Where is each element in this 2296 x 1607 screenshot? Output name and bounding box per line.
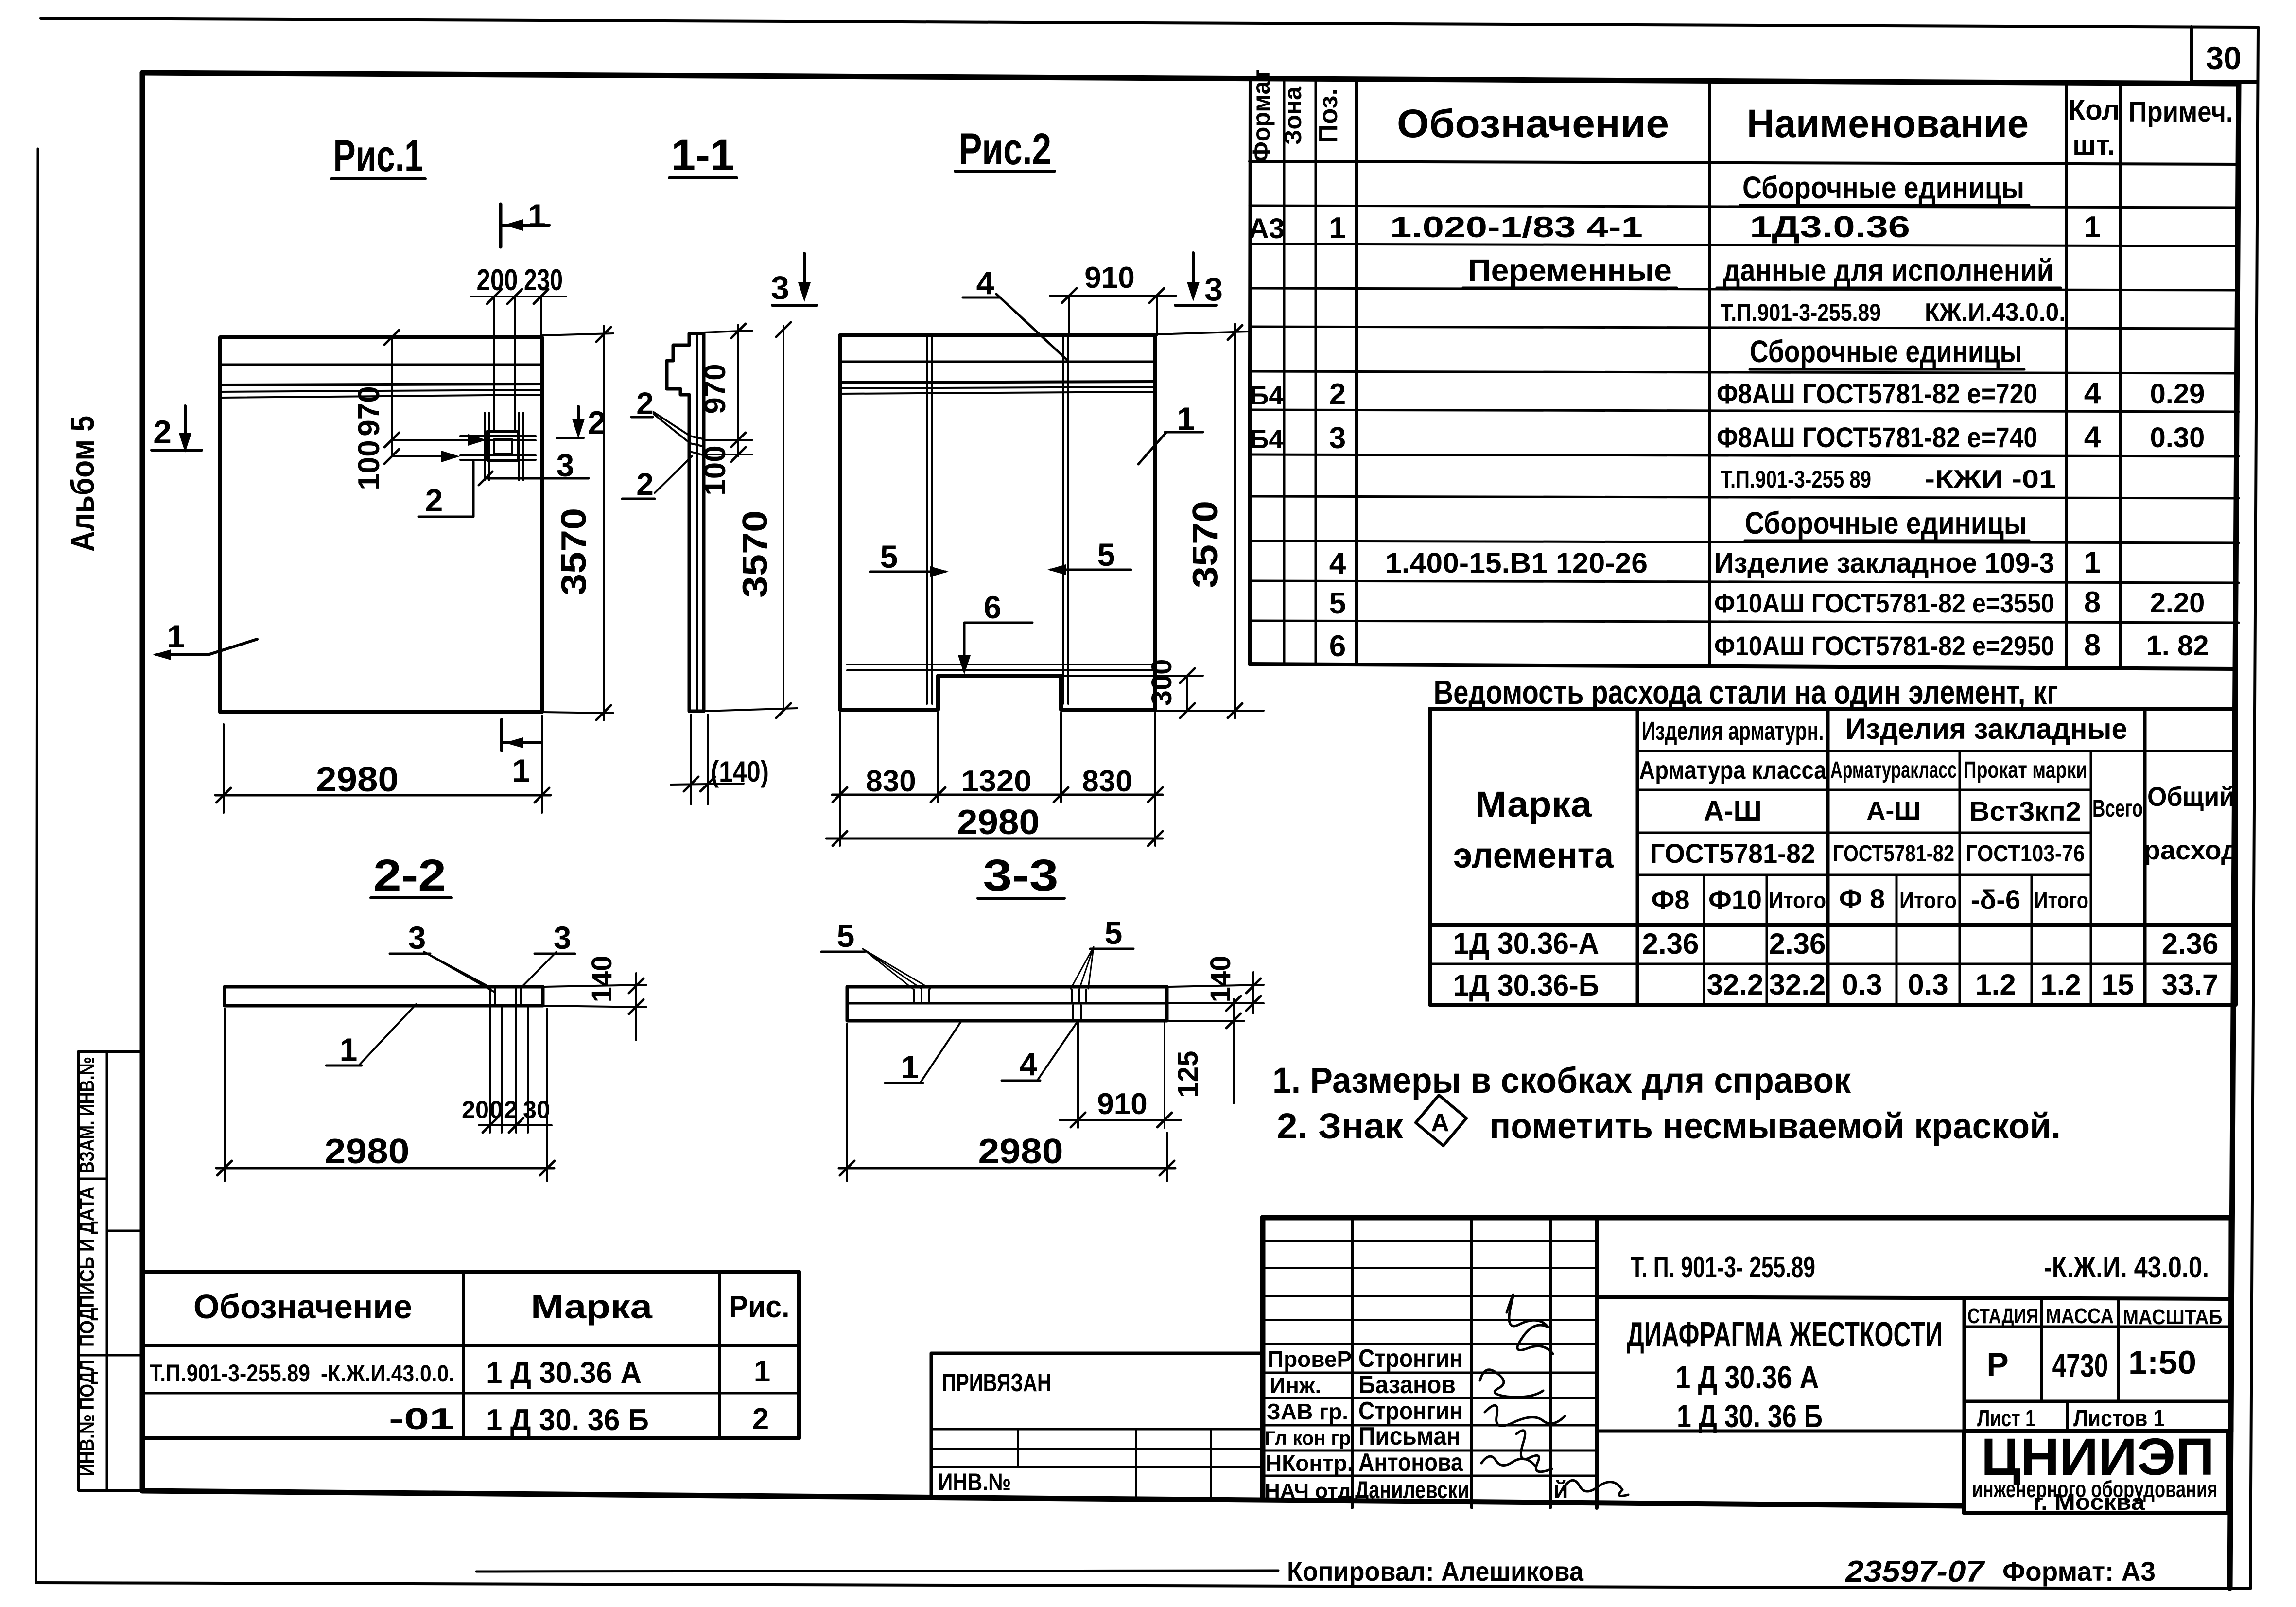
svg-text:6: 6 xyxy=(1329,629,1346,663)
svg-text:Рис.: Рис. xyxy=(729,1289,790,1324)
fig1 plate anchor bars vertical left pair xyxy=(484,413,486,480)
page number box xyxy=(2190,27,2193,82)
svg-text:НКонтр.: НКонтр. xyxy=(1266,1450,1354,1476)
fig1 embedded plate outer xyxy=(487,431,518,460)
svg-text:30: 30 xyxy=(2206,40,2241,76)
title стадия/масса/масштаб verticals xyxy=(1963,1299,1966,1431)
svg-text:4: 4 xyxy=(2084,377,2101,410)
svg-text:3: 3 xyxy=(408,920,426,956)
svg-text:2: 2 xyxy=(1329,378,1346,411)
svg-text:2: 2 xyxy=(636,386,654,421)
svg-text:Сборочные единицы: Сборочные единицы xyxy=(1745,506,2027,541)
svg-text:830: 830 xyxy=(866,765,916,798)
svg-text:Данилевски: Данилевски xyxy=(1355,1476,1469,1503)
svg-text:23597-07: 23597-07 xyxy=(1845,1555,1985,1589)
fig1 dim 100 rotated label xyxy=(384,449,399,464)
fig2 dim 300 xyxy=(1061,675,1203,677)
main frame top xyxy=(142,73,2239,84)
svg-text:20: 20 xyxy=(462,1096,489,1123)
svg-text:Сборочные единицы: Сборочные единицы xyxy=(1742,170,2024,205)
left strip divider 2 xyxy=(79,1354,142,1357)
svg-text:0.3: 0.3 xyxy=(1908,968,1948,1001)
svg-text:Обозначение: Обозначение xyxy=(1397,102,1669,146)
fig1 extension line 200 right xyxy=(514,297,516,431)
svg-text:33.7: 33.7 xyxy=(2162,968,2219,1001)
note 2 diamond A mark xyxy=(1416,1095,1466,1146)
svg-text:2.36: 2.36 xyxy=(1642,927,1699,960)
svg-text:Итого: Итого xyxy=(1899,888,1957,913)
section 2-2 dim 2980 xyxy=(224,1009,226,1181)
svg-text:А: А xyxy=(1431,1109,1449,1137)
svg-text:2.36: 2.36 xyxy=(2162,927,2219,960)
svg-text:1: 1 xyxy=(528,197,546,233)
spec table bottom edge xyxy=(1250,664,2234,669)
svg-text:1Д 30.36-Б: 1Д 30.36-Б xyxy=(1453,969,1599,1002)
svg-text:140: 140 xyxy=(586,956,618,1003)
svg-text:Т.П.901-3-255 89: Т.П.901-3-255 89 xyxy=(1721,466,1871,493)
svg-text:970: 970 xyxy=(352,386,386,436)
svg-text:Б4: Б4 xyxy=(1250,381,1284,410)
svg-text:1.400-15.В1 120-26: 1.400-15.В1 120-26 xyxy=(1385,547,1648,579)
steel table col Всего left xyxy=(2090,751,2092,1005)
svg-text:-КЖИ -01: -КЖИ -01 xyxy=(1925,465,2056,493)
spec table column Поз xyxy=(1355,79,1358,664)
fig2 band line 3 xyxy=(840,387,1155,388)
svg-text:1. Размеры в скобках для справ: 1. Размеры в скобках для справок xyxy=(1272,1060,1851,1100)
svg-text:2.36: 2.36 xyxy=(1769,927,1826,960)
svg-text:3570: 3570 xyxy=(736,510,775,598)
svg-text:Изделия закладные: Изделия закладные xyxy=(1845,713,2127,745)
fig1 section mark 1 top xyxy=(499,204,503,247)
spec table row line 5 xyxy=(1250,327,2239,329)
svg-text:Стронгин: Стронгин xyxy=(1358,1397,1463,1425)
svg-text:910: 910 xyxy=(1097,1087,1147,1121)
section 1-1 dim 3570 xyxy=(783,326,784,711)
svg-text:Общий: Общий xyxy=(2147,781,2235,812)
svg-text:Ф10АШ ГОСТ5781-82 е=2950: Ф10АШ ГОСТ5781-82 е=2950 xyxy=(1714,630,2054,661)
svg-text:140: 140 xyxy=(1205,956,1236,1003)
steel table row 1903 thick xyxy=(1430,923,2236,927)
svg-text:1.2: 1.2 xyxy=(2040,968,2081,1001)
steel table col ф8/ф10 xyxy=(1703,875,1705,1005)
svg-text:2. Знак: 2. Знак xyxy=(1277,1106,1404,1146)
svg-text:1Д 30.36-А: 1Д 30.36-А xyxy=(1453,927,1599,961)
svg-text:А-Ш: А-Ш xyxy=(1866,796,1920,825)
fig1 dim line top xyxy=(470,296,566,297)
svg-text:Р: Р xyxy=(1986,1346,2008,1383)
fig2 rebar horizontal pair bottom xyxy=(847,664,1153,665)
svg-text:ПровеР: ПровеР xyxy=(1268,1346,1352,1372)
spec table row line 12 xyxy=(1250,621,2239,623)
svg-text:расход: расход xyxy=(2144,835,2239,865)
svg-text:-δ-6: -δ-6 xyxy=(1971,884,2020,915)
section 3-3 dim 2980 xyxy=(846,1024,848,1181)
fig1 extension line 230 right xyxy=(540,297,542,337)
svg-text:1: 1 xyxy=(167,618,185,654)
svg-text:100: 100 xyxy=(698,445,732,495)
svg-text:1: 1 xyxy=(2084,210,2101,244)
fig1 panel outline xyxy=(220,337,542,712)
fig1 ext line 100 bottom xyxy=(392,455,457,457)
fig2 panel outline with door notch xyxy=(840,335,1155,710)
section 2-2 small dims 200 230 xyxy=(489,1006,491,1133)
fig1 dim 3570 right xyxy=(543,333,613,335)
svg-text:Обозначение: Обозначение xyxy=(193,1288,412,1326)
title signatures squiggles xyxy=(1507,1295,1553,1354)
svg-text:Копировал: Алешикова: Копировал: Алешикова xyxy=(1287,1556,1584,1587)
spec table row line 11 xyxy=(1250,581,2239,583)
main frame bottom xyxy=(142,1491,1964,1506)
svg-text:6: 6 xyxy=(984,589,1002,625)
spec table row line 7 xyxy=(1250,410,2239,412)
section 1-1 dim 970 xyxy=(704,331,752,332)
main frame left xyxy=(140,73,145,1489)
svg-text:2: 2 xyxy=(425,482,443,518)
svg-text:Инж.: Инж. xyxy=(1270,1373,1321,1398)
svg-text:4: 4 xyxy=(976,265,994,301)
fig2 rebar vertical pair right xyxy=(1062,337,1064,704)
sheet outer border left xyxy=(36,149,38,1583)
обозначение table header bottom xyxy=(143,1344,799,1347)
svg-text:Рис.1: Рис.1 xyxy=(333,131,423,181)
section 2-2 slab xyxy=(225,987,543,1006)
svg-text:0: 0 xyxy=(489,1096,503,1123)
section 1-1 inner line xyxy=(696,335,698,710)
steel table row 1545 xyxy=(1637,750,2236,752)
svg-text:Т. П. 901-3- 255.89: Т. П. 901-3- 255.89 xyxy=(1631,1251,1815,1284)
svg-text:Переменные: Переменные xyxy=(1468,253,1672,288)
svg-text:ГОСТ5781-82: ГОСТ5781-82 xyxy=(1650,838,1815,869)
steel table col ф8/итого закл xyxy=(1896,875,1898,1005)
fig1 section mark 1 bottom xyxy=(500,719,503,751)
section 3-3 dim 125 xyxy=(1169,1020,1244,1022)
section 3-3 dim 910 xyxy=(1077,1023,1079,1128)
svg-text:ВЗАМ. ИНВ.№: ВЗАМ. ИНВ.№ xyxy=(75,1057,98,1173)
svg-text:Всего: Всего xyxy=(2092,795,2143,822)
fig1 band line 2 xyxy=(220,384,542,385)
fig2 band line 2 xyxy=(840,382,1155,383)
svg-text:ГОСТ103-76: ГОСТ103-76 xyxy=(1966,841,2085,867)
svg-text:5: 5 xyxy=(880,539,898,575)
svg-text:1: 1 xyxy=(1329,211,1346,245)
svg-text:1: 1 xyxy=(754,1355,770,1388)
svg-text:СТАДИЯ: СТАДИЯ xyxy=(1967,1304,2038,1328)
svg-text:1 Д 30.36 А: 1 Д 30.36 А xyxy=(486,1356,642,1390)
section 3-3 slab mid line xyxy=(847,1002,1167,1005)
svg-text:Кол: Кол xyxy=(2068,94,2120,126)
fig1 embedded plate inner xyxy=(494,439,512,454)
section 2-2 rebar marks xyxy=(490,989,521,1004)
spec table row line 2 xyxy=(1250,206,2239,208)
spec table row line 9 xyxy=(1250,496,2239,498)
steel table row 1983 xyxy=(1430,963,2236,965)
svg-text:Ф8АШ ГОСТ5781-82 е=720: Ф8АШ ГОСТ5781-82 е=720 xyxy=(1717,378,2037,410)
svg-text:ЗАВ гр.: ЗАВ гр. xyxy=(1267,1399,1348,1424)
left strip divider 1 narrow xyxy=(79,1178,107,1180)
svg-text:Т.П.901-3-255.89: Т.П.901-3-255.89 xyxy=(1721,299,1881,326)
steel table col Общий расход left xyxy=(2143,709,2147,1005)
fig2 section mark 3 right xyxy=(1192,253,1195,297)
svg-text:0.29: 0.29 xyxy=(2150,378,2205,410)
svg-text:-К.Ж.И.43.0.0.: -К.Ж.И.43.0.0. xyxy=(321,1361,454,1387)
svg-text:Письман: Письман xyxy=(1358,1422,1461,1450)
fig1 plate anchor bars horizontal bottom pair xyxy=(460,454,536,456)
spec table column Примеч xyxy=(2119,82,2122,667)
section 1-1 dim (140) xyxy=(690,715,692,804)
svg-text:Антонова: Антонова xyxy=(1358,1449,1463,1477)
spec table left edge xyxy=(1250,78,1251,664)
svg-text:А3: А3 xyxy=(1249,213,1285,245)
section 3-3 slab xyxy=(847,987,1167,1021)
svg-text:1: 1 xyxy=(901,1049,919,1085)
left strip bottom xyxy=(79,1490,142,1491)
svg-text:1320: 1320 xyxy=(961,765,1032,798)
spec table row line 4 xyxy=(1250,288,2239,290)
svg-text:элемента: элемента xyxy=(1453,835,1614,875)
svg-text:1: 1 xyxy=(340,1031,358,1067)
svg-text:2: 2 xyxy=(636,467,654,502)
section 3-3 rebar marks bottom right xyxy=(1073,1005,1081,1019)
steel table col ф10/итого xyxy=(1766,875,1768,1005)
svg-text:3: 3 xyxy=(1204,271,1223,308)
title name cell bottom xyxy=(1597,1430,2231,1433)
svg-text:5: 5 xyxy=(837,918,855,954)
svg-text:пометить несмываемой краской.: пометить несмываемой краской. xyxy=(1490,1106,2061,1146)
svg-text:Итого: Итого xyxy=(1769,888,1826,913)
привязан box top xyxy=(931,1352,1263,1355)
fig2 dim 910 top xyxy=(1068,296,1070,335)
steel table col Марка right xyxy=(1636,709,1639,1005)
svg-text:Стронгин: Стронгин xyxy=(1358,1345,1463,1373)
svg-text:-К.Ж.И. 43.0.0.: -К.Ж.И. 43.0.0. xyxy=(2044,1251,2209,1284)
spec table row line 3 xyxy=(1250,244,2239,246)
fig2 bottom ext lines xyxy=(839,713,841,846)
svg-text:4730: 4730 xyxy=(2052,1347,2108,1384)
fig1 section mark 2 right xyxy=(577,406,580,434)
обозначение table col2 xyxy=(718,1272,721,1438)
svg-text:Формат: Формат xyxy=(1248,69,1275,162)
svg-text:Б4: Б4 xyxy=(1250,425,1284,454)
svg-text:Ф8: Ф8 xyxy=(1652,884,1690,915)
title стадия row bottom xyxy=(1964,1400,2231,1403)
spec table row line 8 xyxy=(1250,454,2239,456)
svg-text:100: 100 xyxy=(352,440,386,490)
fig2 band line 4 xyxy=(840,392,1155,394)
svg-text:ПРИВЯЗАН: ПРИВЯЗАН xyxy=(942,1369,1051,1397)
svg-text:8: 8 xyxy=(2084,586,2101,619)
sheet outer border bottom xyxy=(36,1583,2250,1589)
title vertical 2782 xyxy=(1351,1218,1354,1508)
svg-text:Гл кон гр: Гл кон гр xyxy=(1265,1428,1351,1449)
title ЦНИИЭП xyxy=(1964,1431,2228,1513)
svg-text:125: 125 xyxy=(1172,1051,1204,1098)
title row lines left section xyxy=(1263,1240,1597,1242)
steel table col закладные left xyxy=(1826,709,1830,1005)
left strip inner vertical xyxy=(106,1051,108,1490)
svg-text:2: 2 xyxy=(752,1402,769,1436)
fig1 dim 2980 xyxy=(223,724,225,813)
svg-text:1:50: 1:50 xyxy=(2128,1344,2196,1381)
svg-text:3-3: 3-3 xyxy=(983,851,1059,900)
svg-text:1 Д 30.36 А: 1 Д 30.36 А xyxy=(1676,1359,1819,1395)
svg-text:Арматуракласс: Арматуракласс xyxy=(1830,757,1957,783)
svg-text:2980: 2980 xyxy=(978,1132,1063,1171)
svg-text:Марка: Марка xyxy=(531,1288,653,1326)
section 3-3 rebar marks right xyxy=(1072,990,1086,1001)
svg-text:30: 30 xyxy=(523,1096,550,1123)
svg-text:Арматура класса: Арматура класса xyxy=(1639,756,1827,785)
svg-text:3570: 3570 xyxy=(555,508,593,595)
left strip outer left xyxy=(77,1051,80,1490)
svg-text:ИНВ.№ ПОДЛ: ИНВ.№ ПОДЛ xyxy=(75,1360,98,1476)
fig1 plate anchor bars horizontal top pair xyxy=(460,435,536,437)
svg-text:1Д3.0.36: 1Д3.0.36 xyxy=(1750,210,1910,244)
steel table row 1625 xyxy=(1637,789,2091,791)
svg-text:Наименование: Наименование xyxy=(1747,102,2029,146)
svg-text:й: й xyxy=(1553,1476,1568,1503)
svg-text:ПОДПИСЬ И ДАТА: ПОДПИСЬ И ДАТА xyxy=(75,1187,98,1347)
svg-text:А-Ш: А-Ш xyxy=(1704,795,1761,827)
fig1 band line 3 xyxy=(220,390,542,392)
svg-text:1. 82: 1. 82 xyxy=(2146,630,2209,662)
svg-text:Ф 8: Ф 8 xyxy=(1839,883,1885,914)
svg-text:Изделие закладное 109-3: Изделие закладное 109-3 xyxy=(1714,547,2054,579)
fig1 plate anchor bars vertical right pair xyxy=(518,413,520,480)
section 3-3 rebar marks left xyxy=(914,990,929,1001)
spec table row line 10 xyxy=(1250,541,2239,543)
svg-text:2.20: 2.20 xyxy=(2150,587,2205,619)
steel table outer xyxy=(1430,709,2236,1005)
svg-text:КЖ.И.43.0.0.: КЖ.И.43.0.0. xyxy=(1925,298,2066,327)
привязан verticals xyxy=(1017,1429,1019,1467)
title стадия header underline xyxy=(1964,1326,2231,1328)
svg-text:-01: -01 xyxy=(389,1402,454,1436)
fig1 extension line 200 left xyxy=(493,297,495,431)
fig2 dim 830 1320 830 xyxy=(832,794,1163,796)
svg-text:8: 8 xyxy=(2084,629,2101,662)
svg-text:3: 3 xyxy=(554,920,572,956)
svg-text:ГОСТ5781-82: ГОСТ5781-82 xyxy=(1833,841,1954,867)
svg-text:5: 5 xyxy=(1105,915,1123,951)
обозначение table outer xyxy=(143,1272,799,1438)
title band Т.п. line xyxy=(1597,1297,2231,1299)
svg-text:3: 3 xyxy=(1329,421,1346,455)
fig2 rebar vertical pair left xyxy=(926,337,928,704)
steel table col -δ-6/итого xyxy=(2031,875,2033,1005)
section 1-1 strip outline with corbel xyxy=(667,333,704,711)
title block outer xyxy=(1263,1215,2231,1221)
svg-text:НАЧ отд: НАЧ отд xyxy=(1265,1479,1351,1503)
svg-text:ДИАФРАГМА ЖЕСТКОСТИ: ДИАФРАГМА ЖЕСТКОСТИ xyxy=(1627,1315,1943,1354)
steel table col арматуракласс/прокат xyxy=(1959,751,1961,1005)
sheet outer border top xyxy=(41,18,2258,27)
привязан rows xyxy=(931,1428,1263,1431)
steel table row 1713 xyxy=(1637,832,2091,834)
svg-text:1.020-1/83 4-1: 1.020-1/83 4-1 xyxy=(1390,211,1643,244)
svg-text:1 Д 30. 36 Б: 1 Д 30. 36 Б xyxy=(486,1403,649,1437)
привязан box left xyxy=(930,1353,933,1497)
section 1-1 dim 100 xyxy=(704,454,752,455)
svg-text:МАСШТАБ: МАСШТАБ xyxy=(2123,1305,2223,1329)
svg-text:830: 830 xyxy=(1082,765,1132,798)
svg-text:ИНВ.№: ИНВ.№ xyxy=(938,1468,1011,1496)
spec table column Зона xyxy=(1315,78,1317,664)
svg-text:Формат: А3: Формат: А3 xyxy=(2002,1556,2156,1587)
svg-text:1 Д 30. 36 Б: 1 Д 30. 36 Б xyxy=(1677,1398,1823,1434)
svg-text:Примеч.: Примеч. xyxy=(2129,96,2233,128)
annotation rule above bottom border xyxy=(476,1571,1278,1572)
svg-text:Итого: Итого xyxy=(2034,888,2088,913)
spec table column Формат xyxy=(1283,78,1286,664)
fig2 dim 2980 xyxy=(826,838,1163,840)
svg-text:4: 4 xyxy=(2084,420,2101,454)
title лист divider xyxy=(2066,1401,2069,1431)
title vertical 3285 thick xyxy=(1595,1218,1599,1508)
svg-text:Сборочные единицы: Сборочные единицы xyxy=(1750,334,2022,369)
svg-text:970: 970 xyxy=(698,364,732,414)
svg-text:1.2: 1.2 xyxy=(1975,968,2016,1001)
svg-text:3: 3 xyxy=(771,269,789,306)
svg-text:1: 1 xyxy=(512,752,530,788)
svg-text:Альбом 5: Альбом 5 xyxy=(64,416,101,552)
svg-text:32.2: 32.2 xyxy=(1769,968,1826,1001)
svg-text:данные для исполнений: данные для исполнений xyxy=(1723,253,2053,288)
main frame right xyxy=(2230,84,2239,1589)
svg-text:Поз.: Поз. xyxy=(1314,88,1343,143)
fig2 dim 3570 xyxy=(1155,332,1249,334)
svg-text:Рис.2: Рис.2 xyxy=(959,124,1051,174)
title vertical 3028 xyxy=(1470,1218,1473,1508)
svg-text:Ф10АШ ГОСТ5781-82 е=3550: Ф10АШ ГОСТ5781-82 е=3550 xyxy=(1714,588,2054,618)
section 1-1 rebar hatch xyxy=(690,436,703,455)
spec table column Наименование left xyxy=(1708,80,1711,665)
svg-text:2: 2 xyxy=(153,414,172,451)
svg-text:5: 5 xyxy=(1329,587,1346,620)
svg-text:3570: 3570 xyxy=(1186,501,1225,588)
svg-text:300: 300 xyxy=(1146,659,1178,706)
svg-text:(140): (140) xyxy=(711,755,769,788)
svg-text:15: 15 xyxy=(2102,968,2134,1001)
svg-text:Изделия арматурн.: Изделия арматурн. xyxy=(1642,716,1824,746)
svg-text:2980: 2980 xyxy=(316,760,399,799)
fig1 band line 4 xyxy=(220,395,542,398)
svg-text:шт.: шт. xyxy=(2072,129,2115,161)
svg-text:0.30: 0.30 xyxy=(2150,422,2205,454)
steel table row 1800 xyxy=(1637,874,2091,876)
svg-text:1: 1 xyxy=(2084,546,2101,579)
svg-text:2-2: 2-2 xyxy=(373,851,446,900)
sheet outer border right xyxy=(2250,27,2258,1589)
svg-text:230: 230 xyxy=(524,263,563,297)
svg-text:Т.П.901-3-255.89: Т.П.901-3-255.89 xyxy=(150,1360,310,1387)
svg-text:Ф10: Ф10 xyxy=(1708,884,1762,915)
svg-text:Зона: Зона xyxy=(1279,86,1306,145)
svg-text:г. Москва: г. Москва xyxy=(2033,1489,2145,1515)
svg-text:910: 910 xyxy=(1084,261,1134,295)
svg-text:Вст3кп2: Вст3кп2 xyxy=(1969,796,2081,826)
svg-text:4: 4 xyxy=(1329,547,1346,580)
left strip top xyxy=(79,1050,142,1053)
svg-text:4: 4 xyxy=(1020,1046,1038,1082)
svg-text:2: 2 xyxy=(504,1096,518,1123)
spec table column Кол xyxy=(2065,82,2068,666)
left strip divider 1 wide xyxy=(107,1230,142,1232)
fig1 ext line 100 top xyxy=(392,439,484,441)
svg-text:1-1: 1-1 xyxy=(671,130,734,180)
fig2 band line 1 xyxy=(840,361,1155,363)
svg-text:Марка: Марка xyxy=(1475,784,1592,824)
svg-text:Прокат марки: Прокат марки xyxy=(1964,757,2087,783)
